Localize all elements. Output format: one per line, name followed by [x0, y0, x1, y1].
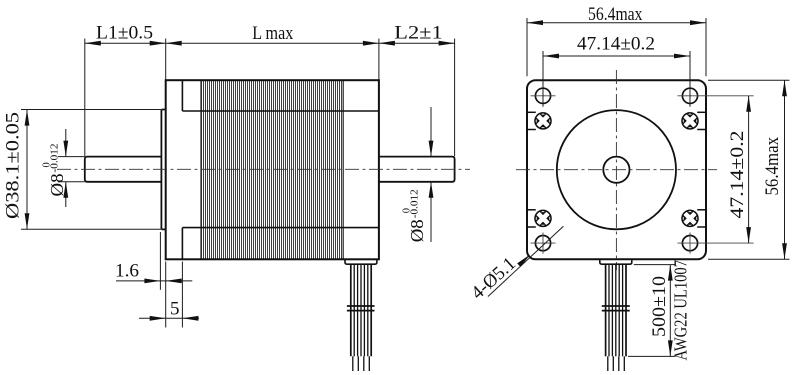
svg-text:L2±1: L2±1: [394, 23, 442, 44]
svg-text:500±10: 500±10: [649, 276, 670, 337]
svg-text:56.4max: 56.4max: [588, 4, 643, 25]
svg-text:L1±0.5: L1±0.5: [96, 23, 153, 44]
svg-text:Ø38.1±0.05: Ø38.1±0.05: [3, 112, 24, 219]
svg-text:47.14±0.2: 47.14±0.2: [727, 131, 748, 219]
svg-text:0: 0: [402, 208, 413, 213]
svg-text:Ø8: Ø8: [47, 174, 67, 197]
svg-text:5: 5: [170, 298, 180, 319]
svg-text:Ø8: Ø8: [407, 219, 427, 242]
svg-text:56.4max: 56.4max: [762, 137, 783, 196]
svg-text:1.6: 1.6: [115, 260, 139, 281]
svg-text:0: 0: [41, 162, 52, 167]
svg-text:L max: L max: [252, 23, 293, 44]
svg-text:AWG22 UL1007: AWG22 UL1007: [671, 260, 691, 361]
svg-text:47.14±0.2: 47.14±0.2: [577, 34, 655, 55]
